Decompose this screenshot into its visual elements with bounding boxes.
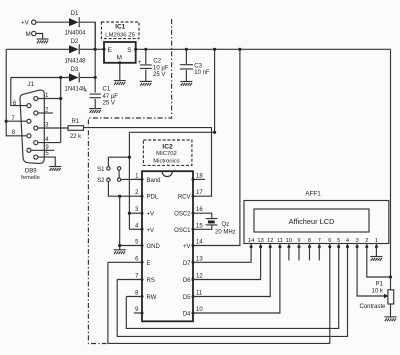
wire regulator E input [95,48,104,50]
svg-text:RCV: RCV [178,195,191,201]
svg-text:S1: S1 [97,167,105,173]
wire quartz to OSC1 [193,226,212,230]
svg-text:12: 12 [267,238,273,244]
ground (C2) [140,81,152,85]
ground (P1) [385,317,397,321]
IC2 pin 7 RS [135,274,155,285]
svg-text:18: 18 [196,173,203,179]
op-amp U1 IC2 body MIC702 [142,171,193,321]
wire D5 to LCD pin 12 [193,244,270,297]
svg-text:R1: R1 [72,119,80,125]
svg-text:D6: D6 [183,278,191,284]
wire pin 4 to strap [38,142,61,144]
svg-text:OSC1: OSC1 [174,228,191,234]
potentiometer P1 10k [359,282,393,310]
wire LCD pin 2 to +V rail [367,244,391,278]
svg-text:D7: D7 [183,261,191,267]
IC2 pin 4 +V [135,223,154,234]
wire E to LCD pin 6 [108,244,330,344]
node M input terminal [26,31,37,38]
wire D4 to LCD pin 11 [193,244,280,314]
wire ground drop [119,196,121,249]
node IC2 pin 5 GND junction [118,244,121,247]
IC2 pin 12 D6 [183,274,204,285]
svg-text:E: E [147,261,151,267]
svg-text:S: S [127,47,131,54]
capacitor C3 10nF [180,49,210,81]
wire branch to pin 7 [6,120,26,122]
switch S1 [97,167,121,173]
node pin 1 junction [59,97,62,100]
svg-text:16: 16 [196,207,203,213]
IC2 pin 17 RCV [178,190,204,201]
svg-text:PDL: PDL [147,195,159,201]
wire J1 pin 2 stub [38,112,53,114]
svg-text:6: 6 [328,238,331,244]
wire S2 left contact to IC2 pin 2 PDL [108,182,142,197]
node E pin dot [102,48,105,51]
node J1 pin 7 [12,116,31,123]
IC2 pin 15 OSC1 [174,223,203,234]
IC2 pin 14 +V [183,240,203,251]
svg-text:9: 9 [297,238,300,244]
wire +V rail drop to IC2 pin 14 [193,49,240,245]
wire pullup horizontal to Band net [129,131,214,133]
node rail junction LCD pin 2 [389,275,392,278]
ground (C1) [89,109,101,113]
IC2 pin 6 E [135,256,150,267]
svg-text:RW: RW [147,295,157,301]
node rail junction pullup drop [213,48,216,51]
node M pin dot [118,61,121,64]
wire LCD pin 7 stub [318,244,320,261]
node J1 pin 1 [34,93,49,101]
node J1 pin 3 [34,122,49,130]
node J1 pin 4 [34,137,49,145]
wire J1 pin 9 stub [31,149,54,151]
node +V input terminal [21,20,36,27]
svg-text:IC1: IC1 [115,24,125,31]
LCD pin dots [250,245,378,248]
svg-text:10 nF: 10 nF [194,70,210,76]
svg-text:25 V: 25 V [103,101,115,107]
wire OSC2 to quartz [193,213,212,218]
svg-text:D1: D1 [71,11,79,17]
wire R1 to IC2 RCV pin 17 [84,128,212,197]
node J1 pin 6 [13,101,31,108]
ground (C3) [180,82,192,86]
svg-text:DB9: DB9 [25,168,37,174]
node J1 pin 2 [34,107,49,115]
wire S2 right contact to IC2 pin 1 Band [121,178,142,180]
wire LCD pin 8 stub [309,244,311,261]
wire left bus down to pin 8 [6,49,26,136]
svg-text:C2: C2 [153,58,161,64]
IC2 label box [143,140,192,165]
svg-text:13: 13 [257,238,263,244]
svg-text:1N4148: 1N4148 [64,58,86,64]
svg-text:P1: P1 [376,282,384,288]
svg-text:RS: RS [147,278,155,284]
wire J1 pin 5 to ground [38,157,55,166]
svg-text:+V: +V [147,228,155,234]
node input junction [94,48,97,51]
svg-text:OSC2: OSC2 [174,212,191,218]
ground (IC2 GND) [114,250,126,254]
capacitor C2 10uF 25V [138,49,169,81]
node J1 pin 5 [34,151,50,159]
wire D2 cathode to input node [80,48,96,50]
svg-text:M: M [26,31,31,38]
LCD module AFF1 [244,190,389,243]
svg-text:Afficheur LCD: Afficheur LCD [289,217,335,226]
ground (LCD pin 1) [370,257,382,261]
ground (J1 pin 5) [49,167,61,171]
svg-text:10: 10 [286,238,292,244]
svg-text:14: 14 [248,238,254,244]
wire LCD pin 10 stub [288,244,290,261]
wiper arrow P1 [384,294,388,299]
svg-text:15: 15 [196,223,203,229]
wire RW to LCD pin 5 [126,244,338,329]
wire D1 cathode to regulator input node [80,22,96,49]
IC1 label box [101,22,139,39]
wire J1 pins 7-8 to D2 anode [6,48,69,50]
IC2 pin 3 +V [135,207,154,218]
svg-text:LM2936 Z5: LM2936 Z5 [105,32,136,38]
svg-text:C1: C1 [103,87,111,93]
node junction pin7 branch [5,120,8,123]
IC2 pin 2 PDL [135,190,159,201]
svg-text:10 µF: 10 µF [153,65,169,71]
IC2 pin 8 RW [135,291,157,302]
wire S1-S2 right contact strap [118,170,120,178]
svg-text:1: 1 [375,238,378,244]
svg-text:+V: +V [21,20,30,27]
wire LCD pin 3 to P1 wiper [357,244,385,297]
svg-text:11: 11 [277,238,283,244]
svg-text:femelle: femelle [21,175,40,181]
wire J1 pin 3 to R1 [38,127,68,129]
svg-text:D4: D4 [183,312,191,318]
svg-text:IC2: IC2 [162,144,173,151]
svg-text:D5: D5 [183,295,191,301]
IC2 pin 1 Band [134,173,161,184]
svg-text:1N4004: 1N4004 [64,31,86,37]
wire input node vertical [94,22,96,92]
svg-text:3: 3 [356,238,359,244]
svg-text:S2: S2 [97,178,105,184]
wire pin 1 to strap [38,98,61,100]
svg-text:20 MHz: 20 MHz [215,230,236,236]
IC2 pin 5 GND [135,240,160,251]
diode D1 1N4004 [64,11,86,37]
wire +V to D1 anode [36,21,69,23]
node rail junction C3 [185,48,188,51]
svg-text:25 V: 25 V [153,72,165,78]
svg-text:12: 12 [196,274,203,280]
IC2 pin 9 [134,307,144,315]
IC2 pin 18 [192,173,206,181]
svg-text:D3: D3 [71,67,79,73]
resistor R1 22k [68,119,84,140]
IC2 pin 13 D7 [183,256,204,267]
svg-text:Mictronics: Mictronics [153,159,180,165]
wire D6 to LCD pin 13 [193,244,261,280]
svg-text:1N4148: 1N4148 [64,86,86,92]
svg-text:J1: J1 [27,81,34,88]
svg-text:13: 13 [196,256,203,262]
node ground drop junction [118,195,121,198]
wire M pin to ground [119,63,121,81]
svg-text:14: 14 [196,240,203,246]
wire +V rail right side down to P1 [390,49,392,290]
wire IC2 pin 4 stub [129,228,142,230]
wire D3 cathode to input node [80,77,96,79]
wire P1 bottom to ground [390,304,392,317]
connector J1 DB9 femelle outline [20,81,44,181]
svg-text:7: 7 [318,238,321,244]
wire strap pins 1-4-6 vertical [60,78,62,143]
node rail junction pin14 drop [238,48,241,51]
crystal Qz 20MHz [206,219,236,236]
svg-text:+V: +V [147,212,155,218]
svg-text:Qz: Qz [222,222,230,228]
IC2 pin 16 OSC2 [174,207,203,218]
capacitor C1 47uF 25V [84,87,118,109]
svg-text:GND: GND [147,244,161,250]
diode D3 1N4148 [64,67,86,92]
diode D2 1N4148 [64,39,86,64]
svg-text:2: 2 [365,238,368,244]
node regulator input junction D3 [94,76,97,79]
svg-text:10 k: 10 k [372,288,384,294]
wire M terminal to ground [36,34,43,39]
op-amp U1 regulator IC1 body [104,42,136,63]
svg-text:D2: D2 [71,39,79,45]
svg-text:M: M [117,55,122,62]
LCD pin numbers 14..1 [248,238,378,244]
ground (IC1 M) [114,81,126,85]
wire IC2 pin 3 stub [129,212,142,214]
svg-text:4: 4 [346,238,349,244]
wire LCD pin 9 stub [298,244,300,261]
svg-text:E: E [108,47,112,54]
node pullup junction [213,131,216,134]
IC2 pin 10 D4 [183,307,204,318]
wire IC2 pin 5 stub [120,245,142,247]
svg-text:C3: C3 [194,63,202,69]
wire J1 pin 6 riser to D3 anode [11,78,69,106]
svg-text:AFF1: AFF1 [305,190,321,197]
IC2 pin 11 D5 [183,291,203,302]
node J1 pin 9 [27,145,49,152]
ground (M terminal) [37,39,49,43]
svg-text:47 µF: 47 µF [103,94,119,100]
node D3 junction with strap [59,76,62,79]
svg-text:11: 11 [196,291,203,297]
node IC2 pin 3 branch junction [128,212,131,215]
wire module boundary dash-dot [88,19,171,344]
wire S1 left contact riser to Band net [108,157,129,166]
svg-text:+: + [84,89,88,95]
wire D7 to LCD pin 14 [193,244,251,263]
svg-text:Band: Band [147,178,161,184]
wire Band net vertical [128,132,130,229]
svg-text:+: + [138,60,142,66]
svg-text:22 k: 22 k [70,134,82,140]
svg-text:17: 17 [196,190,203,196]
svg-text:MIC702: MIC702 [156,151,177,157]
wire LCD pin 1 to ground [375,244,377,257]
node S1 branch junction [128,156,131,159]
wire +V rail from S output [136,48,391,50]
wire RS to LCD pin 4 [117,244,347,337]
svg-text:8: 8 [308,238,311,244]
svg-text:5: 5 [337,238,340,244]
svg-text:Contraste: Contraste [359,304,386,310]
svg-text:10: 10 [196,307,203,313]
node rail junction C2 [144,48,147,51]
node S pin dot [134,48,137,51]
svg-text:+V: +V [183,244,191,250]
node J1 pin 8 [12,130,31,138]
switch S2 [97,178,121,184]
wire +V rail drop to pullup [214,49,216,132]
